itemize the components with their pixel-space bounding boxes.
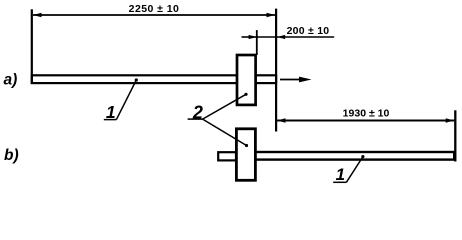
svg-text:a): a) (4, 71, 18, 88)
leader from label 1b to bar (346, 157, 363, 183)
component block 2 of figure b (236, 129, 255, 181)
leader from label 2 to block a (203, 94, 246, 119)
extension line right of dimension 1930 (bar b end cap) (454, 110, 456, 161)
component block 2 of figure a (237, 55, 256, 105)
leader from label 2 to block b (203, 119, 247, 145)
svg-text:b): b) (4, 147, 19, 164)
wire: bar 1 of figure b (250, 152, 454, 160)
svg-text:2250 ± 10: 2250 ± 10 (129, 3, 180, 15)
svg-text:1: 1 (336, 165, 345, 184)
wire: bar 1 of figure a (32, 75, 276, 83)
leader from label 1a to bar (116, 80, 136, 120)
arrow: pull direction at end of bar a (280, 79, 302, 81)
extension line left of dimension 200 (block right face) (256, 30, 258, 55)
dimension line 2250 (33, 14, 275, 16)
extension line left of dimension 2250 (31, 9, 33, 84)
dimension line 200 with outside arrows (242, 36, 257, 38)
dimension line 1930 (277, 120, 454, 122)
wire: stub bar at left of block in figure b (218, 152, 236, 160)
extension line right shared (2250 / 200 / 1930) (275, 9, 277, 132)
svg-text:200 ± 10: 200 ± 10 (287, 25, 330, 37)
svg-text:1930 ± 10: 1930 ± 10 (343, 108, 390, 120)
